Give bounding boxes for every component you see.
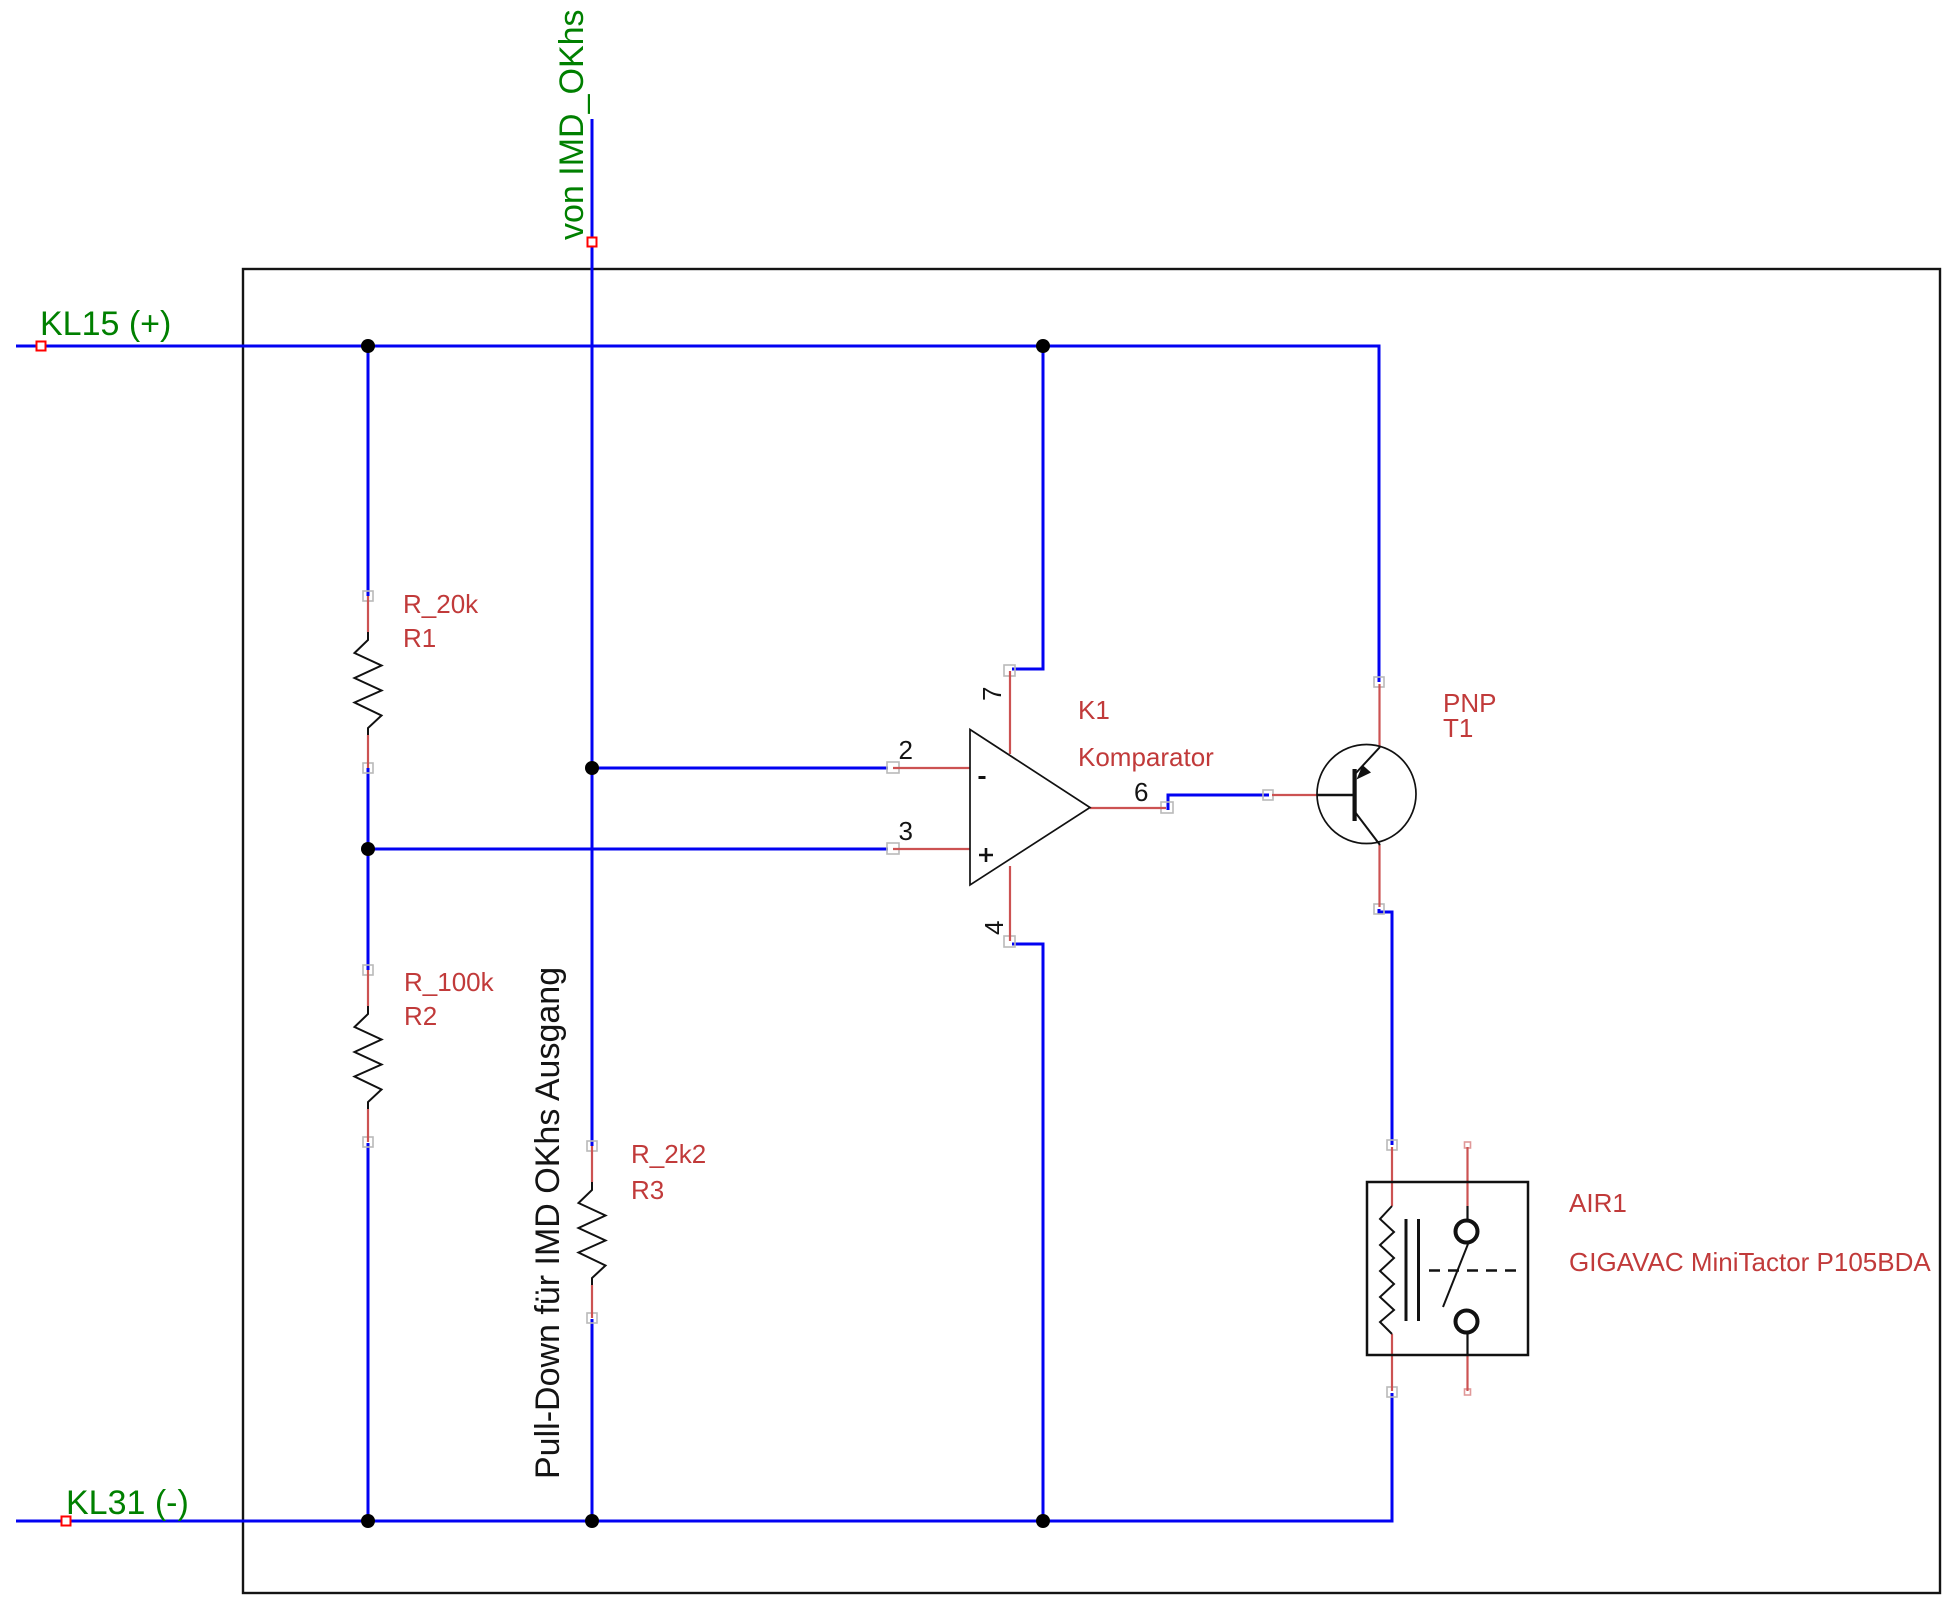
svg-text:R2: R2 [404,1001,437,1031]
switch top lead [1466,1206,1468,1220]
base line [1317,794,1353,797]
emitter arrow [1357,765,1372,780]
triangle body [970,730,1090,886]
net square KL31 [62,1517,71,1526]
wire to op-amp pin2 [592,767,888,770]
svg-text:R_2k2: R_2k2 [631,1139,706,1169]
wire transistor emitter to relay coil [1379,909,1392,1145]
bottom contact circle [1456,1311,1478,1333]
op-amp U1 K1 [893,671,1166,941]
switch bottom stub [1466,1355,1468,1391]
wire R1 top branch [367,346,370,596]
resistor R2 [355,970,382,1142]
relay box [1367,1182,1528,1355]
wire R2 bottom branch [367,1143,370,1521]
wire von IMD_OKhs vertical lower (below R3) [591,1319,594,1521]
core line 1 [1405,1219,1408,1321]
collector diagonal [1355,812,1380,845]
svg-text:R_20k: R_20k [403,589,479,619]
svg-text:KL15 (+): KL15 (+) [40,305,171,343]
emitter stub (top) [1378,684,1380,747]
svg-text:R_100k: R_100k [404,967,495,997]
collector stub (bottom) [1378,845,1380,907]
junction KL15 / R1 branch [361,339,375,353]
junction KL15 / pin7 branch [1036,339,1050,353]
dashed travel line [1429,1269,1519,1271]
component pin end markers [363,591,1397,1397]
svg-text:Komparator: Komparator [1078,742,1214,772]
wire op-amp pin7 to KL15 [1012,346,1043,669]
body circle [1317,745,1416,844]
svg-text:4: 4 [979,921,1009,935]
junction KL31 / R2 branch [361,1514,375,1528]
pin 4 stub [1009,866,1011,941]
resistor R3 [579,1146,606,1318]
top contact circle [1456,1221,1478,1243]
junction KL31 / pin4 branch [1036,1514,1050,1528]
svg-text:3: 3 [899,816,913,846]
coil bottom stub [1391,1334,1393,1391]
relay switch dangling pin marks [1465,1142,1471,1395]
svg-text:T1: T1 [1443,713,1473,743]
transistor Q T1 [1272,684,1416,907]
wire KL31 rail [16,1393,1392,1521]
pin 3 stub [893,848,970,850]
svg-text:K1: K1 [1078,695,1110,725]
relay AIR1 [1367,1147,1528,1391]
base stub [1272,794,1317,796]
resistor R1 [355,596,382,768]
base bar [1353,769,1357,821]
svg-text:2: 2 [899,735,913,765]
net square von IMD_OKhs [588,238,597,247]
wire R1-R2 middle branch [367,768,370,970]
svg-text:von IMD_OKhs: von IMD_OKhs [553,9,591,240]
wire KL15 rail [16,346,1379,682]
wire op-amp pin6 to transistor base [1168,795,1269,810]
svg-text:KL31 (-): KL31 (-) [66,1484,189,1522]
svg-text:R3: R3 [631,1175,664,1205]
wire von IMD_OKhs vertical upper [591,119,594,1146]
blade [1443,1244,1468,1307]
svg-text:Pull-Down für IMD OKhs Ausgang: Pull-Down für IMD OKhs Ausgang [529,967,567,1479]
svg-text:6: 6 [1134,777,1148,807]
junction R1-R2 / pin3 wire [361,842,375,856]
net square KL15 [37,342,46,351]
pin 2 stub [893,767,970,769]
junction von IMD_OKhs / pin2 wire [585,761,599,775]
svg-text:GIGAVAC MiniTactor P105BDA: GIGAVAC MiniTactor P105BDA [1569,1247,1931,1277]
plus symbol [979,848,993,862]
switch top stub [1466,1147,1468,1206]
pin 6 stub [1090,807,1166,809]
coil top stub [1391,1147,1393,1206]
junction KL31 / R3 branch [585,1514,599,1528]
minus symbol [979,776,986,779]
svg-text:7: 7 [977,687,1007,701]
coil zigzag [1380,1206,1394,1334]
core line 2 [1417,1219,1420,1321]
emitter diagonal [1355,747,1380,774]
wire to op-amp pin3 [368,848,888,851]
switch bottom lead [1466,1333,1468,1355]
svg-text:R1: R1 [403,623,436,653]
wire op-amp pin4 to KL31 [1012,944,1043,1521]
pin 7 stub [1009,671,1011,754]
svg-text:AIR1: AIR1 [1569,1188,1627,1218]
